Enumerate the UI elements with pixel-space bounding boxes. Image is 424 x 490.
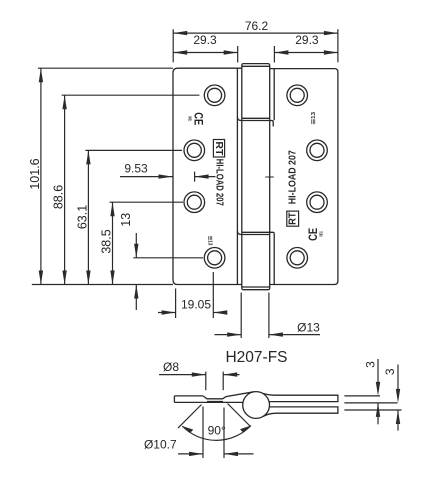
svg-text:Ø10.7: Ø10.7 [144, 438, 177, 452]
svg-text:101.6: 101.6 [28, 158, 42, 189]
svg-text:H207-FS: H207-FS [225, 349, 287, 366]
svg-text:63.1: 63.1 [75, 205, 89, 229]
svg-text:88.6: 88.6 [52, 185, 66, 209]
svg-text:RT: RT [287, 212, 299, 225]
svg-text:0831: 0831 [318, 231, 323, 237]
svg-text:29.3: 29.3 [193, 33, 217, 47]
svg-text:RT: RT [213, 141, 225, 156]
svg-text:38.5: 38.5 [100, 229, 114, 253]
svg-text:90°: 90° [208, 424, 226, 438]
svg-text:3: 3 [363, 361, 377, 368]
svg-text:HI-LOAD 207: HI-LOAD 207 [213, 159, 224, 206]
svg-text:13: 13 [119, 213, 133, 227]
svg-text:3: 3 [383, 368, 397, 375]
svg-text:Ø8: Ø8 [163, 360, 179, 374]
svg-text:19.05: 19.05 [181, 298, 211, 312]
svg-text:0831: 0831 [187, 116, 192, 122]
svg-text:HI-LOAD 207: HI-LOAD 207 [288, 150, 299, 204]
svg-text:☰13: ☰13 [207, 236, 213, 246]
svg-text:76.2: 76.2 [245, 19, 269, 33]
svg-text:Ø13: Ø13 [297, 321, 320, 335]
svg-text:29.3: 29.3 [295, 33, 319, 47]
svg-text:☰13: ☰13 [311, 112, 317, 125]
svg-text:9.53: 9.53 [124, 162, 148, 176]
